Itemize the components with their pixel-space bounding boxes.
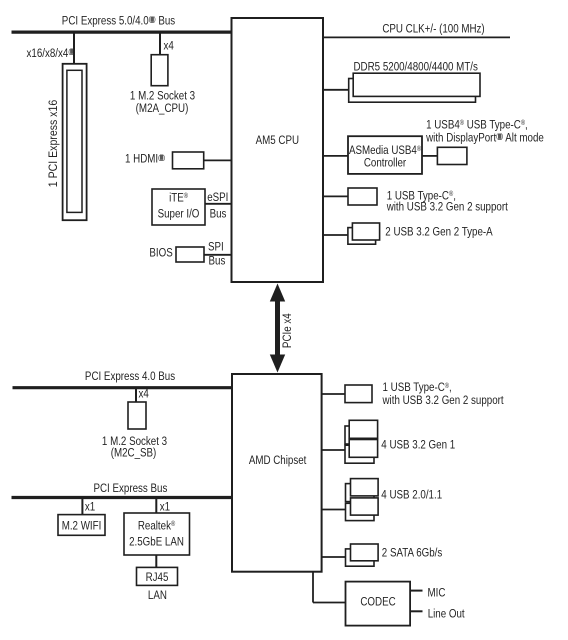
svg-text:(M2A_CPU): (M2A_CPU) [136, 102, 189, 115]
svg-text:Realtek®: Realtek® [138, 520, 176, 533]
wire: HDMI to CPU [204, 159, 233, 161]
USB Type-A front box [352, 223, 379, 240]
DIMM slot front box [353, 73, 480, 96]
svg-text:Bus: Bus [210, 207, 227, 220]
PCIe x16 slot outer [63, 64, 87, 220]
PCIe x16 slot inner [67, 70, 82, 212]
svg-text:PCIe x4: PCIe x4 [281, 313, 294, 348]
wire: chipset to USB 2.0 [321, 509, 346, 511]
USB 2.0 pair1 front box [351, 479, 379, 496]
wire: chipset down to codec (vertical) [312, 572, 314, 603]
Realtek 2.5GbE LAN box [124, 513, 190, 555]
BIOS box [176, 247, 204, 262]
USB 3.2 Gen1 pair1 back box [345, 426, 374, 444]
wire: chipset to USB 3.2 Gen 1 [321, 449, 345, 451]
M.2 socket M2C_SB box [128, 402, 146, 429]
wire: PCI Express bus [12, 496, 233, 499]
svg-text:Super I/O: Super I/O [158, 207, 200, 220]
svg-text:with DisplayPort(▓) Alt mode: with DisplayPort(▓) Alt mode [425, 132, 544, 145]
DIMM slot back box [349, 79, 476, 103]
wire: CPU to ASMedia [322, 155, 348, 157]
wire: chipset to codec (horizontal) [313, 602, 346, 604]
svg-text:RJ45: RJ45 [146, 571, 169, 584]
svg-text:1 M.2 Socket 3: 1 M.2 Socket 3 [130, 90, 195, 103]
svg-text:MIC: MIC [428, 587, 446, 600]
wire: CPU to DIMM [322, 89, 349, 91]
USB4 port box [437, 147, 467, 164]
HDMI box [173, 152, 204, 169]
svg-text:2 USB 3.2 Gen 2 Type-A: 2 USB 3.2 Gen 2 Type-A [385, 226, 493, 239]
svg-text:2 SATA 6Gb/s: 2 SATA 6Gb/s [382, 547, 443, 560]
wire: bus to M.2 M2C [135, 388, 137, 402]
SATA back box [346, 549, 375, 566]
USB Type-C port box (chipset) [345, 385, 372, 403]
svg-text:x1: x1 [85, 501, 95, 514]
svg-text:x4: x4 [139, 387, 149, 400]
svg-text:2.5GbE LAN: 2.5GbE LAN [129, 536, 184, 549]
svg-text:with USB 3.2 Gen 2 support: with USB 3.2 Gen 2 support [386, 201, 508, 214]
wire: bus to M.2 WIFI [81, 498, 83, 516]
svg-text:M.2 WIFI: M.2 WIFI [62, 519, 102, 532]
wire: Realtek to RJ45 [155, 555, 157, 568]
USB 2.0 pair1 back box [346, 484, 375, 502]
USB 3.2 Gen1 pair2 back box [345, 445, 374, 463]
M.2 WIFI box [58, 515, 105, 536]
USB 2.0 pair2 back box [346, 503, 375, 520]
wire: CPU CLK [322, 36, 510, 38]
svg-text:Controller: Controller [364, 157, 407, 170]
SATA front box [351, 544, 379, 561]
USB 3.2 Gen1 pair2 front box [349, 440, 377, 458]
svg-text:1 PCI Express x16: 1 PCI Express x16 [47, 100, 60, 187]
AMD Chipset box [232, 374, 322, 572]
wire: bus to PCIe x16 slot [73, 32, 75, 64]
wire: chipset to SATA [321, 556, 346, 558]
svg-text:AMD Chipset: AMD Chipset [249, 454, 307, 467]
AM5 CPU box [232, 18, 324, 282]
wire: MIC [410, 590, 422, 592]
svg-text:CODEC: CODEC [360, 596, 395, 609]
iTE Super I/O box [152, 189, 205, 225]
wire: PCI Express 4.0 bus [13, 386, 233, 389]
svg-text:4 USB 2.0/1.1: 4 USB 2.0/1.1 [381, 489, 442, 502]
svg-text:DDR5 5200/4800/4400 MT/s: DDR5 5200/4800/4400 MT/s [354, 61, 479, 74]
wire: CPU to USB Type-A [322, 234, 348, 236]
wire: bus to Realtek LAN [155, 498, 157, 514]
wire: CPU to USB Type-C [322, 195, 348, 197]
USB 2.0 pair2 front box [351, 498, 379, 515]
wire: SPI bus to CPU [204, 254, 233, 256]
wire: chipset to USB Type-C [321, 393, 345, 395]
svg-text:PCI Express 5.0/4.0(▓) Bus: PCI Express 5.0/4.0(▓) Bus [62, 15, 176, 28]
PCIe x4 arrow head bottom [270, 355, 285, 373]
PCIe x4 arrow head top [270, 284, 285, 302]
PCIe x4 arrow shaft [275, 296, 280, 360]
svg-text:BIOS: BIOS [149, 247, 172, 260]
svg-text:Line Out: Line Out [428, 607, 465, 620]
svg-text:CPU CLK+/- (100 MHz): CPU CLK+/- (100 MHz) [382, 23, 484, 36]
svg-text:with USB 3.2 Gen 2 support: with USB 3.2 Gen 2 support [382, 394, 504, 407]
svg-text:SPI: SPI [208, 241, 224, 254]
svg-text:LAN: LAN [148, 589, 167, 602]
svg-text:4 USB 3.2 Gen 1: 4 USB 3.2 Gen 1 [381, 439, 455, 452]
USB 3.2 Gen1 pair1 front box [349, 420, 377, 438]
USB Type-A back box [348, 228, 376, 245]
RJ45 box [137, 567, 178, 585]
CODEC box [346, 582, 411, 626]
wire: eSPI bus to CPU [205, 203, 233, 205]
wire: Line Out [410, 610, 422, 612]
svg-text:PCI Express Bus: PCI Express Bus [93, 482, 167, 495]
svg-text:x16/x8/x4(▓): x16/x8/x4(▓) [27, 47, 76, 60]
USB Type-C port box (CPU) [348, 188, 377, 205]
svg-text:ASMedia USB4®: ASMedia USB4® [349, 144, 421, 157]
svg-text:PCI Express 4.0 Bus: PCI Express 4.0 Bus [85, 370, 176, 383]
ASMedia USB4 controller box [348, 136, 422, 174]
wire: bus to M.2 socket [159, 32, 161, 55]
wire: PCI Express 5.0/4.0 bus [12, 30, 232, 33]
svg-text:1 USB4® USB Type-C®,: 1 USB4® USB Type-C®, [426, 118, 528, 131]
svg-text:x4: x4 [164, 40, 174, 53]
svg-text:(M2C_SB): (M2C_SB) [111, 447, 157, 460]
svg-text:AM5 CPU: AM5 CPU [256, 134, 300, 147]
svg-text:eSPI: eSPI [207, 191, 228, 204]
svg-text:x1: x1 [160, 501, 170, 514]
svg-text:Bus: Bus [209, 255, 226, 268]
svg-text:1 USB Type-C®,: 1 USB Type-C®, [383, 381, 452, 394]
M.2 socket M2A_CPU box [151, 55, 168, 86]
wire: ASMedia to USB4 port [422, 155, 437, 157]
